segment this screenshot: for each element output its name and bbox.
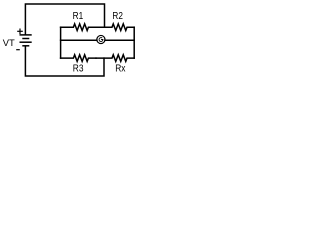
- battery VT plate short bottom: [22, 45, 29, 47]
- wire: battery - terminal down and across bottom to bridge bottom node: [25, 46, 104, 76]
- svg-text:R2: R2: [112, 11, 123, 22]
- battery VT plate long lower: [20, 41, 32, 43]
- battery VT plate short upper: [22, 38, 29, 40]
- resistor R2 (upper right zigzag) with wire to right rail: [96, 24, 134, 31]
- wire: left rail (node A): [60, 27, 62, 58]
- resistor R1 (upper left zigzag) with wire to left rail: [61, 24, 96, 31]
- resistor R3 (lower left zigzag) with wire to left rail: [61, 55, 96, 62]
- wire: battery + terminal up and across top to bridge top node: [25, 4, 104, 34]
- label G: [99, 38, 103, 42]
- battery + sign: [17, 29, 23, 35]
- resistor Rx (lower right zigzag) with wire to right rail: [96, 55, 134, 62]
- svg-text:R3: R3: [73, 64, 84, 75]
- svg-text:Rx: Rx: [115, 64, 125, 75]
- battery - sign: [16, 49, 20, 51]
- battery VT plate long top: [20, 34, 32, 36]
- wire: middle branch right segment: [105, 39, 134, 41]
- svg-text:R1: R1: [73, 11, 84, 22]
- svg-text:VT: VT: [3, 38, 15, 49]
- galvanometer G circle: [97, 35, 105, 43]
- wire: middle branch left segment: [61, 39, 97, 41]
- wire: right rail (node B): [133, 27, 135, 58]
